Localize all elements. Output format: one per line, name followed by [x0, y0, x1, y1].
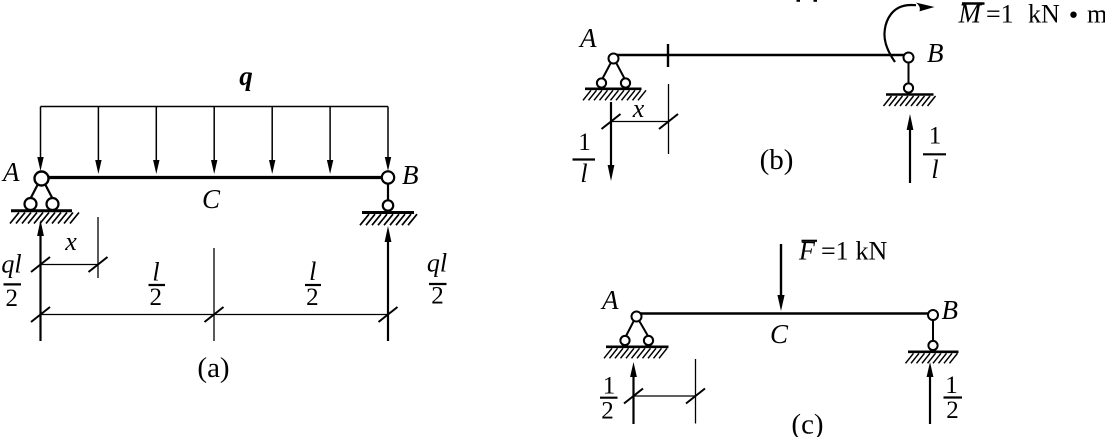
support B link (b)	[908, 60, 910, 86]
stray dot 2	[814, 0, 818, 2]
svg-text:B: B	[927, 38, 944, 68]
support B link (c)	[932, 318, 934, 343]
beam AB (c)	[637, 312, 934, 314]
extension line (c)	[695, 359, 697, 424]
force arrow F (c)	[780, 244, 782, 297]
support A legs (b)	[603, 63, 625, 79]
svg-text:ql: ql	[427, 249, 447, 278]
x dimension line (a)	[41, 264, 99, 266]
load arrow 1 (a)	[40, 107, 42, 160]
support A legs (a)	[31, 184, 53, 199]
fraction 1/l left (b)	[573, 129, 596, 188]
dimension line (c)	[634, 395, 696, 397]
support A roller left (a)	[25, 198, 37, 210]
svg-text:ql: ql	[1, 250, 21, 279]
label F=1 kN (c)	[798, 237, 888, 266]
x dim slash left (a)	[31, 257, 50, 272]
reaction arrow 1/l up at B (b)	[909, 128, 911, 183]
beam AB (a)	[41, 176, 389, 179]
reaction arrow 1/l down at A (b)	[610, 102, 612, 167]
dim slash left (c)	[624, 389, 643, 404]
svg-text:1: 1	[929, 123, 942, 150]
support B pin circle (a)	[382, 171, 394, 183]
support A pin circle (c)	[632, 312, 642, 322]
svg-text:kN: kN	[1028, 0, 1060, 29]
load arrow 2 (a)	[97, 107, 99, 163]
bottom dimension line (a)	[41, 314, 389, 316]
stray dot 1	[797, 0, 801, 2]
svg-text:l: l	[580, 159, 587, 188]
support B roller circle (b)	[904, 83, 913, 92]
fraction 1/2 right (c)	[944, 372, 963, 424]
reaction arrow ql/2 at A (a)	[39, 234, 41, 341]
load arrow 4 (a)	[213, 107, 215, 163]
support B hatching (a)	[360, 214, 417, 225]
fraction l/2 right (a)	[305, 257, 321, 311]
svg-text:l: l	[152, 258, 159, 287]
svg-text:(a): (a)	[197, 352, 229, 384]
svg-text:q: q	[239, 61, 253, 91]
fraction ql/2 right (a)	[427, 249, 447, 310]
svg-text:B: B	[942, 295, 959, 325]
dim slash right (c)	[686, 389, 705, 404]
support B ground line (c)	[908, 350, 959, 353]
distributed load q top line (a)	[41, 106, 389, 108]
load arrow 5 (a)	[271, 107, 273, 163]
beam AB (b)	[614, 54, 909, 56]
svg-text:(b): (b)	[760, 144, 794, 176]
support A hatching (c)	[604, 348, 667, 358]
support A ground line (c)	[606, 345, 669, 348]
support A hatching (a)	[10, 213, 79, 224]
beam tick mark (b)	[667, 44, 669, 67]
reaction arrow ql/2 at B (a)	[387, 240, 389, 341]
svg-text:1: 1	[945, 372, 958, 399]
support B roller circle (a)	[383, 200, 393, 210]
support A pin circle (a)	[35, 172, 49, 186]
reaction arrow 1/2 up at A (c)	[632, 375, 634, 424]
svg-text:A: A	[578, 23, 597, 53]
svg-text:kN: kN	[856, 237, 888, 266]
svg-text:2: 2	[150, 284, 163, 311]
x dim slash right (a)	[89, 257, 108, 272]
fraction l/2 left (a)	[149, 258, 166, 312]
svg-text:C: C	[770, 319, 789, 349]
svg-text:2: 2	[601, 398, 614, 425]
svg-text:x: x	[632, 94, 645, 123]
support A roller left (b)	[597, 78, 606, 87]
label M=1 kN.m (b)	[958, 0, 1105, 29]
svg-text:C: C	[202, 184, 221, 214]
support B roller circle (c)	[928, 341, 937, 350]
support B pin circle (c)	[928, 310, 938, 320]
svg-text:l: l	[309, 257, 316, 286]
svg-text:x: x	[64, 227, 77, 256]
support A ground line (a)	[11, 209, 72, 212]
support B pin circle (b)	[904, 53, 914, 63]
svg-text:=1: =1	[986, 0, 1014, 29]
support B hatching (c)	[906, 353, 958, 363]
support B ground line (a)	[362, 211, 414, 214]
load arrow 7 (a)	[387, 107, 389, 160]
x dim slash left (b)	[602, 114, 621, 129]
load arrow 6 (a)	[329, 107, 331, 163]
svg-text:2: 2	[946, 397, 959, 424]
support A legs (c)	[626, 321, 648, 337]
x dim slash right (b)	[659, 114, 678, 129]
svg-text:2: 2	[306, 284, 319, 311]
support A roller right (a)	[47, 198, 59, 210]
fraction ql/2 left (a)	[1, 250, 21, 313]
svg-text:B: B	[402, 160, 419, 190]
load arrow 3 (a)	[155, 107, 157, 163]
svg-text:=1: =1	[821, 237, 849, 266]
x extension line (a)	[97, 217, 99, 278]
svg-text:1: 1	[578, 129, 591, 156]
support A roller right (c)	[644, 336, 653, 345]
fraction 1/2 left (c)	[600, 373, 618, 425]
svg-text:m: m	[1087, 0, 1105, 29]
x dimension line (b)	[611, 121, 669, 123]
bottom dim slash left (a)	[31, 307, 50, 322]
centre extension line (a)	[213, 248, 215, 341]
svg-text:1: 1	[603, 373, 616, 400]
svg-text:l: l	[931, 155, 938, 184]
support A roller right (b)	[621, 78, 630, 87]
support A pin circle (b)	[609, 54, 619, 64]
svg-text:A: A	[600, 285, 619, 315]
svg-text:2: 2	[431, 283, 444, 310]
reaction arrow 1/2 up at B (c)	[929, 375, 931, 424]
support A roller left (c)	[620, 336, 629, 345]
support A hatching (b)	[583, 90, 646, 100]
bottom dim slash right (a)	[379, 307, 398, 322]
support B ground line (b)	[886, 93, 934, 96]
support B hatching (b)	[884, 96, 936, 106]
svg-text:2: 2	[6, 285, 19, 312]
svg-text:(c): (c)	[791, 409, 823, 437]
bottom dim slash centre (a)	[205, 307, 224, 322]
fraction 1/l right (b)	[923, 123, 946, 185]
support A ground line (b)	[585, 88, 642, 91]
x extension line (b)	[668, 84, 670, 154]
moment arc M (b)	[884, 5, 916, 62]
support B link (a)	[387, 183, 389, 201]
svg-text:A: A	[1, 157, 20, 187]
